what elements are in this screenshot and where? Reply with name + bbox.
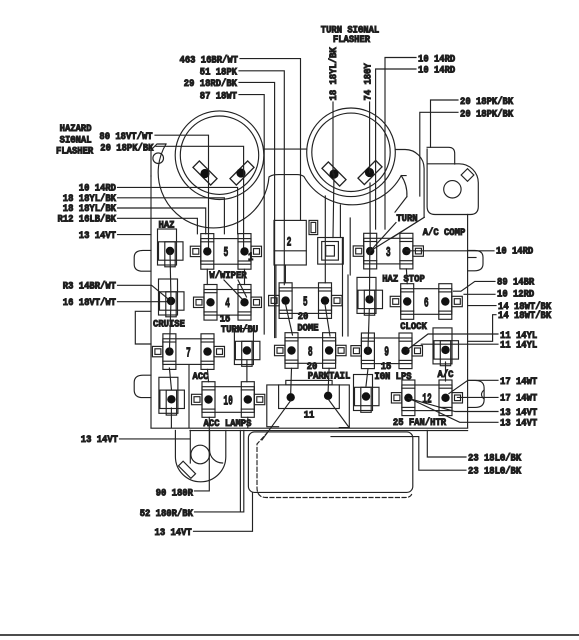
svg-text:ACC LAMPS: ACC LAMPS <box>204 419 252 430</box>
wire 17 14WT first <box>449 377 537 394</box>
label 20 PARKTAIL <box>307 362 351 383</box>
right clip tab upper <box>468 250 483 270</box>
svg-text:HAZARD: HAZARD <box>60 123 92 134</box>
panel bottom edge <box>151 428 468 430</box>
wire 51 18PK <box>200 67 285 284</box>
wire 10 12RD <box>464 290 534 301</box>
wire connector11 right diagonal <box>328 399 349 428</box>
label ACC LAMPS <box>204 419 252 430</box>
fuse 7 <box>152 334 224 370</box>
wire box2 down <box>340 205 350 336</box>
svg-text:R3 14BR/WT: R3 14BR/WT <box>63 281 116 293</box>
wire 463 16BR/WT <box>180 54 301 220</box>
fuse HAZ STOP element <box>357 277 383 315</box>
svg-text:CLOCK: CLOCK <box>400 322 427 333</box>
fuse 5 row1 <box>190 234 261 270</box>
left rectangular tab <box>135 311 151 344</box>
left clip tab upper <box>134 250 151 271</box>
label W/WIPER <box>209 270 247 282</box>
turn signal flasher circle <box>307 108 396 197</box>
svg-text:7: 7 <box>186 345 191 361</box>
panel notch below ear <box>391 176 424 239</box>
fuse 6 <box>390 284 462 320</box>
wire 10 14RD top first <box>385 54 455 229</box>
wire fuse3 right to fuse6 <box>405 269 408 284</box>
svg-text:2: 2 <box>287 235 292 250</box>
wire 13 14VT bottom <box>155 493 253 539</box>
svg-text:FLASHER: FLASHER <box>56 146 93 157</box>
wire 16 18VT/WT <box>63 297 167 309</box>
svg-text:52 180R/BK: 52 180R/BK <box>140 508 194 520</box>
label 25 FAN/HTR <box>393 417 447 429</box>
wire 89 14BR <box>454 278 535 292</box>
svg-text:13 14VT: 13 14VT <box>500 419 537 430</box>
wire haz column <box>169 251 171 428</box>
svg-text:29 18RD/BK: 29 18RD/BK <box>184 78 238 90</box>
wire 11 14YL first <box>407 331 537 350</box>
wire 10 14RD left <box>79 184 238 234</box>
svg-text:17 14WT: 17 14WT <box>500 394 537 405</box>
svg-text:23 18LG/BK: 23 18LG/BK <box>468 466 522 478</box>
svg-text:10 14RD: 10 14RD <box>79 184 116 195</box>
panel right edge <box>467 215 469 428</box>
bottom cover plate <box>248 432 412 493</box>
svg-text:SIGNAL: SIGNAL <box>60 134 92 145</box>
wire 17 14WT second <box>457 394 537 405</box>
fuse panel top-left mounting tab <box>151 144 166 176</box>
wire R3 14BR/WT <box>63 281 170 301</box>
label CLOCK <box>400 322 427 333</box>
svg-text:51 18PK: 51 18PK <box>200 67 238 78</box>
svg-text:HAZ: HAZ <box>159 220 175 231</box>
svg-text:TURN/BU: TURN/BU <box>221 324 258 336</box>
svg-text:18 18YL/BK: 18 18YL/BK <box>63 193 117 205</box>
wire 18 18YL/BK vertical <box>328 47 340 238</box>
svg-text:A/C COMP: A/C COMP <box>423 227 466 239</box>
svg-text:463 16BR/WT: 463 16BR/WT <box>180 54 239 66</box>
wire 10 14RD right row1 <box>406 247 533 258</box>
fuse CRUISE <box>159 279 185 317</box>
wire fuse5 to fuse4 left <box>206 269 208 284</box>
wire 20 18PK/BK left <box>100 142 243 251</box>
svg-text:4: 4 <box>225 296 230 312</box>
label CRUISE <box>153 320 185 331</box>
fuse 4 <box>194 285 262 321</box>
wire 18 18YL/BK left second <box>63 203 206 234</box>
fuse 3 <box>353 233 423 269</box>
svg-text:13 14VT: 13 14VT <box>500 408 537 419</box>
label HAZ <box>159 220 175 231</box>
svg-text:6: 6 <box>424 295 429 311</box>
label 15 IGN LPS <box>374 362 411 383</box>
fuse 10 <box>192 382 265 418</box>
wire 18 18YL/BK left first <box>63 193 225 234</box>
fuse 9 <box>351 333 423 369</box>
svg-text:13 14VT: 13 14VT <box>155 528 192 539</box>
wire 80 18VT/WT <box>99 131 208 251</box>
label 15 TURN/BU <box>220 315 258 337</box>
leader TURN to fuse 3 <box>370 218 424 252</box>
label ACC <box>193 372 209 383</box>
label HAZ STOP <box>382 275 425 286</box>
panel left edge <box>150 176 152 428</box>
svg-text:20: 20 <box>298 312 309 323</box>
svg-text:W/WIPER: W/WIPER <box>209 270 247 282</box>
wire acc column vertical <box>188 365 190 428</box>
cover plate right corner <box>396 147 455 217</box>
label A/C <box>438 369 454 381</box>
svg-text:87 18WT: 87 18WT <box>200 91 237 102</box>
wire 20 18PK/BK right first <box>431 96 514 148</box>
wire 14 18WT/BK second <box>468 310 552 341</box>
svg-text:23 18LG/BK: 23 18LG/BK <box>468 452 522 464</box>
wire 29 18RD/BK <box>184 78 275 337</box>
svg-text:89 14BR: 89 14BR <box>497 278 535 289</box>
svg-text:74 18GY: 74 18GY <box>364 63 375 101</box>
wire dome caps up <box>276 196 325 338</box>
hazard flasher terminal left <box>193 161 217 185</box>
left clip tab lower <box>134 375 151 397</box>
svg-text:DOME: DOME <box>297 324 318 335</box>
fuse TURN/BU element <box>234 329 260 367</box>
right clip tab lower <box>468 380 485 407</box>
svg-text:20 18PK/BK: 20 18PK/BK <box>100 142 154 154</box>
wire A/C to fuse 12 <box>445 362 447 381</box>
connector 11 <box>267 380 350 427</box>
right mounting ear <box>427 164 478 215</box>
svg-text:10 14RD: 10 14RD <box>418 54 455 65</box>
wire 20 18PK/BK right second <box>420 109 514 196</box>
svg-text:11 14YL: 11 14YL <box>500 341 537 352</box>
svg-text:5: 5 <box>303 294 308 310</box>
fuse 5 dome <box>269 283 342 319</box>
wire fuse8 to connector 11 <box>291 368 329 393</box>
bottom cover plate dashed edge <box>257 432 412 498</box>
wire fuse5 to fuse4 right <box>244 269 246 284</box>
svg-text:10 14RD: 10 14RD <box>496 247 533 258</box>
svg-text:16 18VT/WT: 16 18VT/WT <box>63 297 116 309</box>
wire connector11 left diagonal <box>262 401 291 441</box>
svg-text:IGN LPS: IGN LPS <box>374 372 411 383</box>
leader W/WIPER to fuse 4 <box>224 280 247 301</box>
svg-text:90 180R: 90 180R <box>156 488 194 499</box>
svg-text:20 18PK/BK: 20 18PK/BK <box>460 109 514 121</box>
wire dome left down <box>286 305 293 336</box>
svg-text:13 14VT: 13 14VT <box>81 435 118 446</box>
connector 2 <box>274 220 306 265</box>
wire 23 18LG/BK second <box>331 437 522 478</box>
svg-text:13 14VT: 13 14VT <box>79 231 116 242</box>
svg-text:9: 9 <box>384 345 389 361</box>
label 20 DOME <box>297 312 318 335</box>
svg-text:18 18YL/BK: 18 18YL/BK <box>63 203 117 215</box>
svg-text:3: 3 <box>386 245 391 261</box>
wire 52 18OR/BK <box>140 430 244 520</box>
wire turnbu down <box>246 360 249 428</box>
connector block right of 2 <box>318 238 343 265</box>
svg-text:25 FAN/HTR: 25 FAN/HTR <box>393 417 447 429</box>
svg-text:R12 16LB/BK: R12 16LB/BK <box>58 214 117 226</box>
svg-text:15: 15 <box>220 315 231 326</box>
svg-text:14 18WT/BK: 14 18WT/BK <box>498 310 552 322</box>
svg-text:17 14WT: 17 14WT <box>500 377 537 388</box>
strap slot <box>178 461 195 478</box>
panel outline around flashers <box>158 144 406 228</box>
wire 90 18OR <box>156 417 210 499</box>
hazard flasher terminal right <box>230 161 254 185</box>
strap hole <box>191 445 210 464</box>
fuse ACC element <box>159 377 185 415</box>
label HAZARD SIGNAL FLASHER <box>56 123 93 157</box>
wire 87 18WT <box>200 91 264 334</box>
fuse 12 left element <box>354 375 380 413</box>
wire 13 14VT left upper <box>79 231 151 242</box>
wire R12 16LB/BK <box>58 214 198 234</box>
page bottom rule <box>0 634 579 636</box>
turn flasher terminal left <box>322 162 346 186</box>
label A/C COMP <box>423 227 466 239</box>
svg-text:CRUISE: CRUISE <box>153 320 185 331</box>
svg-text:5: 5 <box>224 245 229 261</box>
svg-text:8: 8 <box>308 344 313 360</box>
label TURN SIGNAL FLASHER <box>321 26 380 46</box>
svg-text:10 12RD: 10 12RD <box>497 290 534 301</box>
wire 11 14YL second <box>421 341 537 352</box>
turn flasher terminal right <box>358 160 382 184</box>
svg-text:1: 1 <box>248 252 254 264</box>
fuse 8 <box>275 333 347 369</box>
wire fuse7 to fuse10 <box>208 369 209 381</box>
wire 74 18GY vertical <box>364 63 375 173</box>
wire 13 14VT right first <box>408 398 537 419</box>
wire fuse3 left to haz stop <box>368 183 370 352</box>
svg-text:18 18YL/BK: 18 18YL/BK <box>328 47 340 101</box>
svg-text:80 18VT/WT: 80 18VT/WT <box>99 131 152 143</box>
wire 13 14VT right second <box>410 399 538 430</box>
svg-text:10 14RD: 10 14RD <box>418 66 455 77</box>
wire 10 14RD top second <box>376 66 456 229</box>
svg-text:FLASHER: FLASHER <box>333 35 371 46</box>
svg-text:20 18PK/BK: 20 18PK/BK <box>460 96 514 108</box>
wire 23 18LG/BK first <box>427 430 522 464</box>
flasher cover bridge <box>264 148 307 150</box>
wire dome right down <box>325 305 330 337</box>
bottom mounting strap <box>175 430 225 481</box>
fuse A/C element <box>433 328 459 366</box>
fuse HAZ <box>158 229 184 267</box>
label TURN <box>396 214 417 225</box>
svg-text:11: 11 <box>304 410 315 421</box>
wire 13 14VT left lower <box>81 435 190 446</box>
fuse 12 <box>391 380 462 416</box>
wire 14 18WT/BK first <box>468 301 552 313</box>
svg-text:10: 10 <box>223 393 233 409</box>
wire fuse9 to element <box>366 369 368 386</box>
hazard flasher circle <box>175 111 264 200</box>
connector 2 side box <box>309 220 318 234</box>
